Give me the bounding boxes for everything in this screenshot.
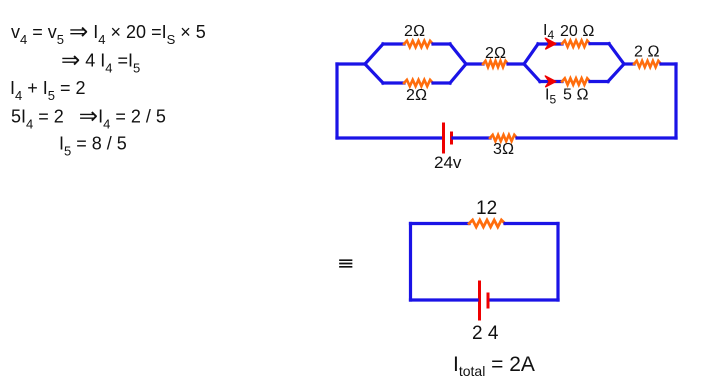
wire: stub from left vertical to node A xyxy=(337,62,365,65)
svg-text:5 Ω: 5 Ω xyxy=(563,87,589,104)
wire: diamond2 top lead left xyxy=(538,42,562,45)
resistor R4 20 ohm xyxy=(562,41,590,47)
battery B1 24v: long plate xyxy=(442,124,445,152)
wire: equivalent-circuit right vertical xyxy=(556,224,559,301)
resistor R6 2 ohm (right series) xyxy=(634,61,661,67)
arrow: current I5 direction xyxy=(545,76,556,87)
svg-text:20 Ω: 20 Ω xyxy=(560,23,595,40)
svg-text:3Ω: 3Ω xyxy=(493,141,514,158)
svg-text:v4 = v5 ⇒ I4 × 20 =IS × 5: v4 = v5 ⇒ I4 × 20 =IS × 5 xyxy=(11,18,206,47)
wire: R6 to right vertical xyxy=(661,62,676,65)
wire: diamond1 bottom lead left xyxy=(383,81,404,84)
wire: diamond2 lower-right diagonal xyxy=(608,64,624,82)
wire: diamond2 bottom lead right xyxy=(590,80,608,83)
svg-text:Itotal = 2A: Itotal = 2A xyxy=(453,353,535,379)
svg-text:⇒ 4 I4 =I5: ⇒ 4 I4 =I5 xyxy=(61,47,140,76)
wire: equivalent-circuit bottom-left segment xyxy=(411,298,478,301)
svg-text:2Ω: 2Ω xyxy=(404,23,425,40)
svg-text:I4 + I5 = 2: I4 + I5 = 2 xyxy=(10,78,86,103)
resistor R5 5 ohm xyxy=(562,78,590,84)
svg-text:24v: 24v xyxy=(434,153,462,172)
wire: node D to R6 xyxy=(624,62,634,65)
svg-text:12: 12 xyxy=(476,198,497,219)
svg-text:2Ω: 2Ω xyxy=(485,45,506,62)
svg-text:2Ω: 2Ω xyxy=(406,87,427,104)
equivalence symbol xyxy=(340,260,352,267)
wire: top-circuit right vertical xyxy=(674,64,677,138)
resistor R8 12 ohm (equivalent) xyxy=(469,220,505,227)
wire: diamond1 upper-left diagonal from node A xyxy=(365,44,383,64)
wire: diamond1 lower-right diagonal xyxy=(450,64,466,83)
wire: equivalent-circuit bottom-right segment xyxy=(491,298,558,301)
wire: diamond2 top lead right xyxy=(590,42,609,45)
svg-text:I5: I5 xyxy=(545,87,556,107)
wire: diamond2 upper-right diagonal xyxy=(609,44,624,64)
wire: diamond1 upper-right diagonal xyxy=(450,44,466,64)
svg-text:2 4: 2 4 xyxy=(472,323,499,344)
wire: diamond2 lower-left diagonal xyxy=(524,64,540,82)
wire: diamond2 upper-left diagonal xyxy=(524,44,538,64)
resistor R1 2 ohm (top of first parallel pair) xyxy=(404,41,433,47)
resistor R7 3 ohm xyxy=(490,135,517,141)
wire: bottom wire left segment to battery xyxy=(337,136,442,139)
resistor R3 2 ohm (middle series) xyxy=(483,61,508,67)
svg-text:5I4 = 2 ⇒I4 = 2 / 5: 5I4 = 2 ⇒I4 = 2 / 5 xyxy=(11,103,166,132)
wire: diamond1 bottom lead right xyxy=(433,81,450,84)
resistor R2 2 ohm (bottom of first parallel pair) xyxy=(404,80,433,86)
wire: equivalent-circuit top-left segment xyxy=(411,222,470,225)
wire: battery to R7 xyxy=(453,136,490,139)
battery B1 24v: short plate xyxy=(450,133,453,143)
wire: diamond1 lower-left diagonal from node A xyxy=(365,64,383,83)
wire: top-circuit left vertical xyxy=(335,64,338,138)
wire: node B to R3 xyxy=(466,62,483,65)
svg-text:I4: I4 xyxy=(543,22,554,42)
arrow: current I4 direction xyxy=(545,38,556,49)
wire: equivalent-circuit top-right segment xyxy=(505,222,558,225)
wire: diamond1 top lead left xyxy=(383,42,404,45)
wire: R3 to node C xyxy=(508,62,524,65)
svg-text:2 Ω: 2 Ω xyxy=(634,44,660,61)
wire: bottom wire right segment xyxy=(517,136,676,139)
wire: diamond1 top lead right xyxy=(433,42,450,45)
wire: equivalent-circuit left vertical xyxy=(409,224,412,301)
wire: diamond2 bottom lead left xyxy=(540,80,562,83)
battery B2 24: long plate xyxy=(478,282,481,319)
battery B2 24: short plate xyxy=(487,294,490,307)
svg-text:I5 = 8 / 5: I5 = 8 / 5 xyxy=(59,134,127,159)
